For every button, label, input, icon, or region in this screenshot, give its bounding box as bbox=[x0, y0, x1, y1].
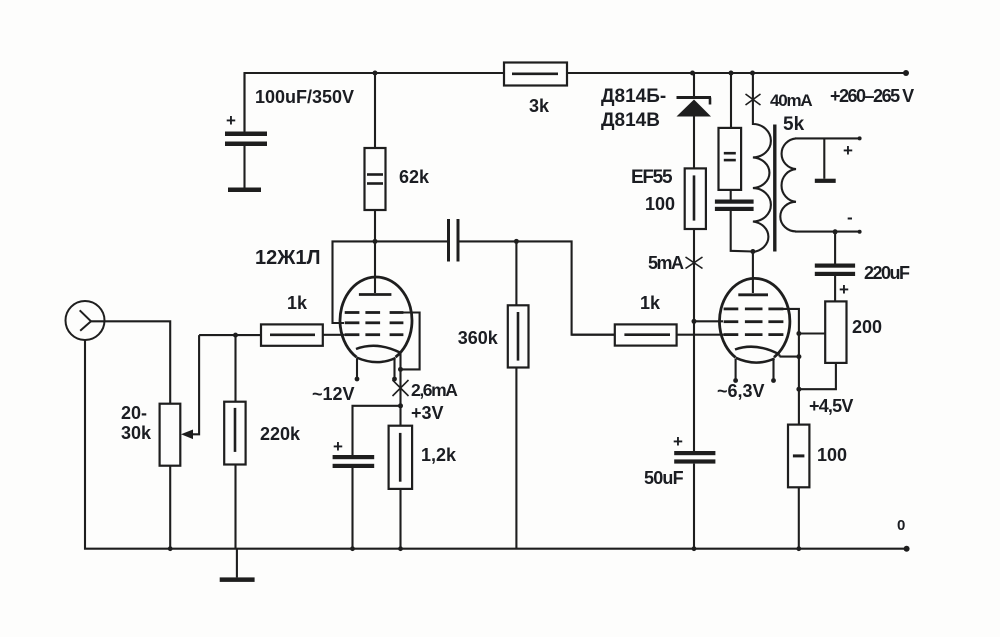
marker X 40mA bbox=[746, 94, 761, 105]
resistor 100 cathode bbox=[788, 425, 847, 549]
svg-text:5k: 5k bbox=[783, 114, 805, 135]
tube V2 grid g1 dashes bbox=[724, 333, 784, 336]
marker X 5mA bbox=[686, 257, 703, 269]
pot wiper arrow bbox=[181, 335, 199, 439]
node top rail transformer bbox=[750, 71, 755, 76]
tube V1 grid g2 dashes bbox=[345, 321, 404, 324]
resistor 100 screen EF55 bbox=[685, 168, 706, 321]
tube V2 envelope bbox=[719, 278, 789, 357]
svg-text:100: 100 bbox=[645, 194, 675, 214]
node bottom pot bbox=[168, 546, 173, 551]
wire screen line down to 50uF bbox=[693, 321, 695, 455]
wire coupling cap to grid V2 bbox=[460, 241, 615, 334]
ground symbol bbox=[220, 549, 255, 582]
tube V1 12Ж1Л bbox=[340, 277, 412, 362]
resistor 1k grid stopper V1 bbox=[261, 293, 345, 346]
wire primary bottom to anode top cap V2 bbox=[752, 252, 754, 294]
node bottom 50uF bbox=[692, 546, 697, 551]
tube V1 envelope bbox=[340, 277, 412, 357]
svg-text:100: 100 bbox=[817, 445, 847, 465]
transformer primary coil bbox=[753, 73, 771, 252]
node top rail 62k bbox=[373, 71, 378, 76]
capacitor cathode bypass V1 bbox=[333, 437, 375, 549]
wire cathode junction to bypass cap bbox=[353, 406, 401, 455]
capacitor C1 100uF/350V bbox=[225, 73, 354, 192]
resistor 3k bbox=[504, 63, 567, 117]
svg-text:2,6mA: 2,6mA bbox=[411, 380, 458, 400]
wire grid bus into 1k V2 bbox=[572, 334, 615, 336]
wire anode to top cap V1 bbox=[374, 241, 376, 293]
svg-text:5mA: 5mA bbox=[648, 253, 684, 273]
tube V2 cathode arc bbox=[735, 347, 780, 355]
node anode V1 bbox=[373, 239, 378, 244]
tube V1 top cap plate bbox=[359, 293, 392, 296]
resistor 1k grid stopper V2 bbox=[615, 293, 677, 346]
heater leg left V2 bbox=[733, 359, 738, 383]
wire anode to screen loop V1 bbox=[333, 241, 376, 323]
transformer core bbox=[773, 125, 776, 252]
wire tap to 200 left bbox=[799, 332, 825, 334]
svg-text:100uF/350V: 100uF/350V bbox=[255, 87, 354, 107]
node tap 200 bbox=[796, 331, 801, 336]
tube V1 cathode arc bbox=[356, 346, 401, 353]
node cathode V1 bbox=[398, 367, 403, 372]
svg-text:220uF: 220uF bbox=[864, 263, 910, 283]
svg-text:0: 0 bbox=[897, 517, 905, 534]
node 360k top bbox=[514, 239, 519, 244]
tube V2 heater dish arc bbox=[736, 358, 775, 363]
svg-text:200: 200 bbox=[852, 317, 882, 337]
svg-text:+: + bbox=[226, 111, 236, 130]
node bottom rail right end bbox=[904, 546, 910, 552]
capacitor coupling bbox=[449, 219, 459, 262]
svg-text:1,2k: 1,2k bbox=[421, 445, 457, 465]
resistor 62k bbox=[365, 73, 431, 241]
tube V1 heater dish arc bbox=[357, 358, 396, 363]
svg-text:3k: 3k bbox=[529, 96, 550, 116]
heater leg right V2 bbox=[771, 360, 776, 383]
wire bottom ground rail bbox=[85, 340, 907, 549]
svg-text:62k: 62k bbox=[399, 167, 430, 187]
heater leg right V1 bbox=[392, 360, 397, 382]
svg-text:+260–265 V: +260–265 V bbox=[830, 86, 914, 106]
node top rail zener bbox=[690, 71, 695, 76]
wire secondary top bbox=[795, 137, 860, 139]
resistor 1,2k bbox=[389, 406, 457, 549]
node 220uF top bbox=[833, 229, 838, 234]
node bottom 1,2k bbox=[398, 546, 403, 551]
potentiometer 20-30k bbox=[121, 403, 180, 549]
marker X 2,6mA bbox=[393, 380, 409, 396]
node bottom 100 bbox=[796, 546, 801, 551]
heater leg left V1 bbox=[355, 359, 360, 382]
capacitor screen bypass bbox=[715, 190, 754, 252]
tube V2 EF55 output bbox=[719, 278, 789, 362]
node screen g2 V2 bbox=[692, 319, 697, 324]
svg-text:~12V: ~12V bbox=[312, 384, 355, 404]
svg-text:Д814В: Д814В bbox=[601, 110, 660, 131]
tube V2 top cap plate bbox=[738, 293, 768, 296]
wire suppressor/cathode bus V2 bbox=[779, 309, 799, 425]
svg-text:50uF: 50uF bbox=[644, 468, 684, 488]
wire screen tap to g2 bbox=[694, 320, 723, 322]
wire 1k to g1 V2 bbox=[677, 334, 724, 336]
node 200 bottom bus bbox=[796, 387, 801, 392]
node secondary top end bbox=[858, 136, 862, 140]
tube V2 grid g2 dashes bbox=[724, 320, 784, 323]
svg-text:EF55: EF55 bbox=[631, 167, 673, 188]
node transformer primary bottom bbox=[750, 249, 755, 254]
node top rail screen dropper bbox=[729, 71, 734, 76]
node secondary bottom end bbox=[858, 230, 862, 234]
capacitor 50uF bbox=[644, 432, 715, 549]
wire cathode V2 to bus bbox=[780, 356, 799, 358]
svg-text:20-: 20- bbox=[121, 403, 147, 423]
wire wiper to grid bus bbox=[199, 334, 261, 336]
node cathode junction +3V bbox=[398, 403, 403, 408]
svg-text:12Ж1Л: 12Ж1Л bbox=[255, 247, 320, 269]
node 220k top bbox=[233, 333, 238, 338]
wire cathode drop V2 bbox=[778, 355, 780, 357]
tube V1 grid g1 dashes bbox=[345, 333, 404, 336]
svg-text:-: - bbox=[847, 208, 853, 227]
input jack J1 bbox=[66, 301, 105, 340]
wire top HT rail bbox=[245, 73, 907, 131]
resistor 200 bbox=[799, 301, 882, 389]
svg-text:40mA: 40mA bbox=[770, 91, 812, 110]
wire anode to coupling cap bbox=[375, 240, 447, 242]
wire secondary bottom bbox=[795, 231, 860, 233]
node top rail right end bbox=[903, 70, 909, 76]
transformer secondary coil bbox=[780, 138, 796, 231]
svg-text:360k: 360k bbox=[458, 328, 499, 348]
svg-text:1k: 1k bbox=[287, 293, 308, 313]
svg-text:+: + bbox=[333, 437, 343, 456]
capacitor 220uF bbox=[815, 232, 910, 302]
svg-text:+: + bbox=[839, 280, 849, 299]
svg-text:+: + bbox=[673, 432, 683, 451]
svg-text:+3V: +3V bbox=[411, 403, 444, 423]
node cathode bus V2 bbox=[796, 354, 801, 359]
node bottom bypass cap bbox=[350, 546, 355, 551]
svg-text:30k: 30k bbox=[121, 423, 152, 443]
svg-text:+: + bbox=[843, 141, 853, 160]
wire jack to pot bbox=[91, 321, 170, 403]
svg-text:220k: 220k bbox=[260, 424, 301, 444]
resistor 360k bbox=[458, 241, 529, 548]
output terminal plus bbox=[815, 138, 853, 183]
wire cathode V1 down bbox=[399, 369, 401, 405]
tube V2 grid g3 dashes bbox=[724, 307, 784, 310]
svg-text:1k: 1k bbox=[640, 293, 661, 313]
svg-text:+4,5V: +4,5V bbox=[809, 396, 853, 416]
svg-text:Д814Б-: Д814Б- bbox=[601, 86, 666, 107]
svg-text:~6,3V: ~6,3V bbox=[717, 381, 765, 401]
wire cathode drop V1 bbox=[399, 353, 401, 370]
tube V1 grid g3 dashes bbox=[345, 311, 404, 314]
resistor screen dropper with = marks bbox=[719, 73, 742, 190]
resistor 220k bbox=[224, 335, 301, 549]
zener diode D814 bbox=[677, 73, 712, 168]
wire suppressor to cathode V1 bbox=[399, 313, 420, 370]
